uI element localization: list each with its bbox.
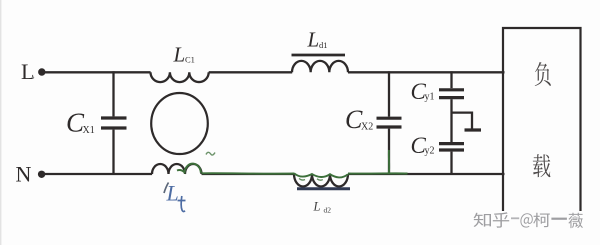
- svg-text:X2: X2: [361, 122, 373, 133]
- svg-text:L: L: [21, 59, 34, 84]
- load label 负: [535, 62, 551, 86]
- capacitor CX1 wire upper: [112, 71, 114, 116]
- capacitor CX1 plates: [101, 116, 127, 119]
- wire top: LC1 to Ld1: [209, 71, 293, 73]
- watermark 知乎 @柯一薇: [474, 213, 491, 227]
- green annotation over choke bottom winding: [177, 164, 201, 173]
- inductor Ld1: [292, 61, 348, 72]
- svg-text:y1: y1: [425, 92, 435, 103]
- capacitor Cy1-Cy2 middle wire: [450, 99, 452, 142]
- capacitor CX2 plates: [377, 117, 402, 120]
- ground arm wire: [452, 113, 473, 129]
- green annotation wire Lt to Ld2: [202, 172, 295, 174]
- wire top: L to LC1: [44, 71, 151, 73]
- stray mark after L: [32, 76, 34, 78]
- svg-text:d1: d1: [319, 40, 328, 50]
- svg-text:C1: C1: [185, 55, 195, 65]
- load label 载: [533, 154, 551, 177]
- capacitor Cy2 wire lower: [450, 152, 452, 175]
- label Lt blue subscript t: [178, 196, 186, 212]
- common-mode choke core circle: [151, 93, 208, 154]
- green annotation wire Ld2 to CX2 node: [348, 172, 408, 174]
- capacitor CX2 wire upper: [388, 71, 390, 116]
- green scribble near choke circle: [206, 152, 215, 155]
- wire bottom: N to Lt: [44, 173, 152, 175]
- svg-text:N: N: [16, 162, 32, 187]
- capacitor Cy1 wire upper: [450, 71, 452, 88]
- svg-text:L: L: [313, 200, 321, 214]
- load box rectangle (open bottom): [503, 28, 581, 211]
- inductor Ld2: [294, 174, 348, 187]
- node N terminal dot: [38, 171, 45, 178]
- svg-text:L: L: [166, 181, 179, 206]
- wire bottom: Lt to Ld2: [202, 173, 295, 175]
- capacitor CX1 wire lower: [112, 130, 114, 175]
- inductor Ld1 core bar: [292, 54, 346, 57]
- svg-text:y2: y2: [425, 146, 435, 157]
- ground bar: [465, 128, 482, 131]
- inductor Ld2 core bar: [297, 187, 350, 190]
- green annotation over Ld2: [294, 173, 348, 177]
- green annotation vertical at CX2: [388, 150, 390, 174]
- capacitor Cy2 plates: [439, 142, 464, 145]
- wire top: Ld1 to load: [348, 71, 505, 73]
- inductor LC1 top winding of choke: [151, 72, 209, 82]
- svg-text:d2: d2: [324, 206, 332, 215]
- svg-text:L: L: [173, 43, 186, 67]
- wire bottom: Ld2 to load: [348, 173, 505, 175]
- node L terminal dot: [38, 68, 45, 75]
- capacitor CX2 wire lower: [388, 129, 390, 175]
- capacitor Cy1 plates: [439, 88, 464, 91]
- watermark dash artifact: [511, 217, 519, 219]
- label Lt blue handwritten i-stroke: [164, 183, 169, 194]
- inductor Lt bottom winding of choke: [152, 164, 202, 174]
- svg-text:L: L: [307, 28, 320, 52]
- svg-text:X1: X1: [83, 125, 95, 136]
